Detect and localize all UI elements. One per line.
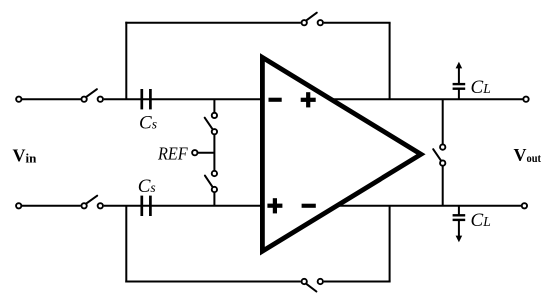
wire output switch chain upper stub (442, 99, 444, 144)
op-amp bottom minus sign (302, 204, 316, 208)
op-amp top plus sign (301, 92, 316, 107)
label REF (157, 144, 188, 164)
switch S7 output shorting (433, 144, 445, 165)
wire bottom input rail segment 2 (switch to opamp) (104, 205, 263, 207)
wire top feedback horizontal left (125, 22, 300, 24)
svg-text:Cs: Cs (138, 176, 156, 197)
wire bottom feedback horizontal left (125, 281, 300, 283)
switch S3 top feedback (302, 13, 323, 26)
arrow to AC ground bottom CL (456, 236, 463, 243)
svg-text:CL: CL (471, 77, 491, 98)
wire bottom feedback right vertical (389, 206, 391, 282)
wire top feedback horizontal right (324, 22, 391, 24)
capacitor CL bottom (453, 206, 466, 238)
wire output switch chain lower stub (442, 166, 444, 206)
svg-text:REF: REF (157, 144, 188, 164)
op-amp U1 (262, 57, 421, 251)
node terminal Vin+ (top left) (16, 97, 21, 102)
wire top feedback right vertical (389, 23, 391, 100)
wire top feedback tap vertical (125, 22, 127, 100)
op-amp bottom non-inverting input sign (plus) (267, 198, 282, 213)
wire top input rail segment 2 (switch to opamp) (104, 98, 263, 100)
node terminal Vout+ (top right) (523, 97, 528, 102)
switch S6 REF lower (205, 171, 217, 192)
switch S5 REF upper (205, 113, 217, 135)
svg-text:Cs: Cs (139, 113, 157, 134)
wire bottom feedback horizontal right (324, 281, 391, 283)
wire REF chain middle (213, 135, 215, 171)
switch S2 bottom input (81, 196, 103, 209)
svg-text:CL: CL (471, 210, 491, 231)
wire bottom output rail (335, 205, 522, 207)
capacitor Cs bottom (142, 196, 151, 216)
arrow to AC ground top CL (456, 62, 463, 69)
node terminal Vin- (bottom left) (16, 203, 21, 208)
node terminal Vout- (bottom right) (522, 203, 527, 208)
switch S1 top input (81, 89, 103, 102)
wire REF terminal stub (197, 152, 214, 154)
wire bottom input rail segment 1 (22, 205, 81, 207)
switch S4 bottom feedback (302, 279, 323, 292)
wire REF chain upper stub (213, 99, 215, 112)
wire top output rail (329, 98, 523, 100)
op-amp top inverting input sign (minus) (269, 98, 282, 102)
wire top input rail segment 1 (22, 98, 81, 100)
wire bottom feedback tap vertical (125, 206, 127, 283)
capacitor Cs top (142, 89, 151, 109)
node terminal REF (192, 150, 197, 155)
capacitor CL top (453, 66, 466, 99)
wire REF chain lower stub (213, 193, 215, 206)
